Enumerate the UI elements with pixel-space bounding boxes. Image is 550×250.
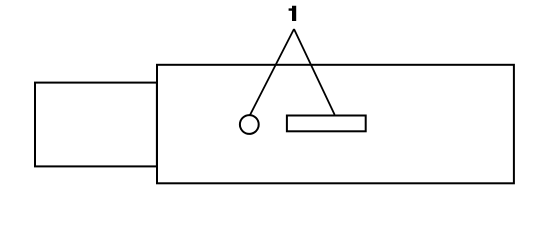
slot (small inner rectangle) bbox=[287, 116, 366, 132]
callout label 1 (drawn glyph, Arial-bold style without foot serif) bbox=[289, 6, 297, 21]
leader line to slot bbox=[294, 29, 335, 115]
connector body (small left rectangle) bbox=[35, 83, 157, 167]
leader line to hole bbox=[250, 29, 294, 115]
sensor body (large rectangle) bbox=[157, 65, 514, 184]
mounting hole (circle) bbox=[240, 115, 259, 134]
